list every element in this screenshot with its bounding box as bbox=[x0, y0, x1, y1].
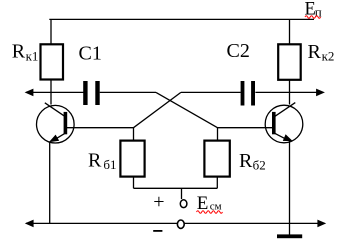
label Rb1 bbox=[88, 149, 117, 172]
wire VT1 base line to node bbox=[67, 127, 134, 129]
label minus sign bbox=[153, 230, 162, 232]
wire VT1 emitter to bottom rail bbox=[49, 142, 51, 224]
ground bbox=[277, 234, 302, 238]
svg-text:C1: C1 bbox=[79, 42, 102, 64]
capacitor C2 bbox=[241, 81, 255, 106]
wire Rb1 bottom stub bbox=[133, 177, 135, 189]
wire crossover to C2 bbox=[181, 91, 241, 93]
red squiggle under Esm bbox=[197, 211, 223, 214]
wire VT2 emitter to ground bbox=[289, 141, 291, 236]
label Rk2 bbox=[308, 41, 335, 64]
wire bias connector line bbox=[134, 187, 218, 189]
svg-text:б2: б2 bbox=[253, 158, 266, 173]
wire bottom rail with arrows bbox=[25, 220, 326, 228]
wire crossover diagonal C2-to-base1 bbox=[134, 92, 181, 127]
svg-text:см: см bbox=[210, 201, 222, 213]
svg-text:+: + bbox=[153, 191, 164, 213]
resistor Rb1 bbox=[120, 141, 144, 177]
svg-text:R: R bbox=[239, 150, 253, 172]
svg-text:б1: б1 bbox=[103, 157, 116, 172]
wire stub to Esm plus terminal bbox=[181, 188, 183, 199]
svg-text:к1: к1 bbox=[26, 49, 39, 64]
transistor VT1 bbox=[37, 103, 75, 143]
resistor Rk2 bbox=[278, 44, 301, 80]
terminal o upper bbox=[180, 200, 187, 208]
wire Rk2 bottom to transistor VT2 collector bbox=[289, 80, 291, 105]
wire Rk1 bottom to transistor VT1 collector bbox=[50, 80, 52, 105]
transistor VT2 bbox=[265, 103, 303, 143]
svg-text:R: R bbox=[88, 149, 102, 171]
terminal o lower bbox=[177, 220, 184, 228]
resistor Rb2 bbox=[204, 141, 229, 177]
svg-text:к2: к2 bbox=[322, 48, 335, 63]
wire upper signal line left with arrow bbox=[25, 89, 84, 97]
wire top supply rail bbox=[49, 18, 314, 20]
label Ep supply bbox=[305, 0, 322, 19]
wire C1 to crossover bbox=[100, 91, 156, 93]
label Esm bbox=[197, 193, 222, 214]
wire node to Rb1 bbox=[133, 128, 135, 141]
red squiggle under Ep bbox=[305, 16, 321, 19]
wire drop from rail to Rk2 bbox=[289, 19, 291, 45]
wire drop from rail to Rk1 bbox=[50, 19, 52, 45]
wire VT2 base line to node bbox=[218, 127, 273, 129]
svg-text:R: R bbox=[12, 41, 26, 63]
wire node to Rb2 bbox=[217, 128, 219, 141]
wire Rb2 bottom stub bbox=[216, 177, 218, 189]
svg-text:R: R bbox=[308, 41, 322, 63]
wire C2 to right with arrow bbox=[255, 89, 325, 97]
wire crossover diagonal C1-to-base2 bbox=[156, 92, 218, 127]
resistor Rk1 bbox=[41, 44, 64, 79]
svg-text:C2: C2 bbox=[227, 40, 250, 62]
label Rk1 bbox=[12, 41, 39, 64]
capacitor C1 bbox=[83, 81, 100, 105]
label Rb2 bbox=[239, 150, 266, 173]
